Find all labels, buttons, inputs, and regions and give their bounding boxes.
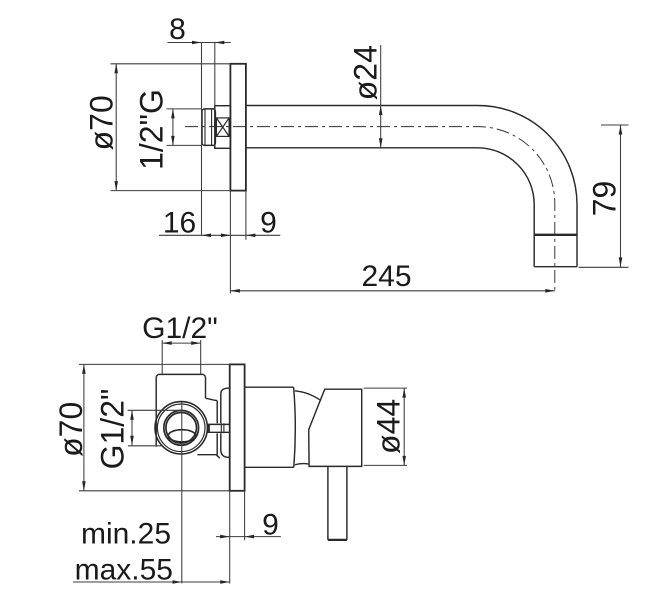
mounting collar xyxy=(221,388,230,457)
svg-text:G1/2": G1/2" xyxy=(94,389,130,470)
svg-text:8: 8 xyxy=(169,13,186,46)
aerator cap line xyxy=(534,234,577,236)
dim phi24 line xyxy=(380,45,382,148)
arrows phi70 top xyxy=(114,64,118,74)
spout tube end xyxy=(534,266,577,268)
spout wall flange xyxy=(230,64,246,191)
hole depth oval xyxy=(168,430,196,442)
dim 8 lines xyxy=(167,43,230,236)
arrows phi70 bottom xyxy=(82,364,86,374)
dim 79 lines xyxy=(579,125,629,267)
dim 1/2G thread lines xyxy=(167,109,202,145)
threaded inlet 1/2"G xyxy=(202,109,215,145)
arrows 245 xyxy=(230,289,240,293)
svg-text:245: 245 xyxy=(361,260,411,293)
valve body back step xyxy=(206,398,218,454)
dim phi44 lines xyxy=(364,388,407,465)
arrows G1/2 circle xyxy=(130,410,134,420)
spout tube inner profile xyxy=(246,148,534,267)
arrows phi44 xyxy=(402,388,406,398)
svg-text:16: 16 xyxy=(163,206,196,239)
G1/2 threaded hole xyxy=(164,410,199,445)
handle body xyxy=(309,389,362,466)
wall plate xyxy=(230,364,245,490)
svg-text:1/2"G: 1/2"G xyxy=(134,89,170,170)
svg-text:ø70: ø70 xyxy=(84,95,120,150)
arrows phi24 xyxy=(379,106,383,116)
valve body block xyxy=(156,374,205,446)
cartridge housing xyxy=(245,387,296,467)
spout tube outer profile xyxy=(246,106,577,267)
handle cone curves xyxy=(295,391,321,465)
dim 9 bottom lines xyxy=(216,491,281,541)
dim phi70 bottom view xyxy=(79,364,230,490)
dim 245 line xyxy=(230,290,554,292)
handle lever rod xyxy=(328,466,347,540)
outlet boss outer ring xyxy=(155,402,207,454)
arrows 1/2G xyxy=(171,109,175,119)
outlet stub to wall xyxy=(207,424,230,432)
dim 16 and 9 line xyxy=(159,234,280,236)
plate edge extension xyxy=(229,491,231,584)
valve centerline extension xyxy=(181,402,183,584)
fitting body with cross section box xyxy=(215,106,231,149)
dim G1/2 circle xyxy=(128,410,182,446)
dim min max line xyxy=(73,581,230,583)
svg-text:G1/2": G1/2" xyxy=(142,312,218,345)
arrows G1/2 top xyxy=(162,341,172,345)
dim G1/2 top of valve xyxy=(162,340,201,374)
svg-text:ø44: ø44 xyxy=(370,399,406,454)
svg-text:min.25: min.25 xyxy=(81,518,171,551)
svg-text:max.55: max.55 xyxy=(75,554,173,587)
arrows 9 bottom xyxy=(220,535,230,539)
svg-text:ø24: ø24 xyxy=(348,45,384,100)
arrows 79 xyxy=(619,125,623,135)
arrows 16 and 9 xyxy=(202,234,212,238)
svg-text:79: 79 xyxy=(587,181,623,217)
flange edge extensions xyxy=(230,191,246,294)
spout centerline xyxy=(185,127,555,292)
svg-text:9: 9 xyxy=(262,509,279,542)
svg-text:ø70: ø70 xyxy=(53,402,89,457)
dim phi70 top view lines xyxy=(111,64,231,191)
svg-text:9: 9 xyxy=(260,206,277,239)
arrows min max xyxy=(173,580,183,584)
arrows dim 8 xyxy=(192,41,202,45)
valve body bottom right xyxy=(197,455,219,459)
